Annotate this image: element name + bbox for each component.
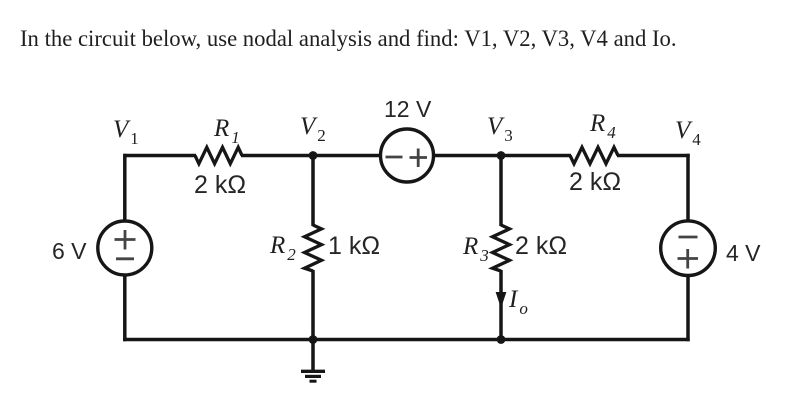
plus sign of 6V source [115, 230, 136, 250]
minus sign of 12V source [386, 156, 403, 159]
node label V3 [487, 114, 513, 139]
source value label 6 V [52, 240, 87, 263]
wire branch R2 down to bottom rail [311, 270, 315, 340]
wire bottom rail [123, 338, 690, 342]
wire top segment 12V source to R4 (through node V3) [434, 154, 572, 158]
ground symbol [301, 340, 325, 382]
wire left vertical upper (V1 down to 6V source) [123, 154, 127, 222]
resistor label R4 [590, 111, 616, 136]
resistor label R2 [270, 233, 296, 258]
source value label 4 V [726, 242, 761, 265]
resistor label R1 [214, 116, 240, 141]
plus sign of 12V source [410, 149, 428, 168]
resistor label R3 [463, 234, 489, 259]
wire top segment R4 to V4 corner [617, 154, 690, 158]
junction dot at node V3 [497, 151, 506, 160]
value label 2 kOhm of R4 [569, 170, 621, 195]
current label Io [509, 287, 528, 312]
junction dot at ground node [309, 335, 318, 344]
plus sign of 4V source [678, 249, 699, 269]
resistor R3 (2 kOhm, vertical) [493, 225, 510, 271]
wire right vertical upper (V4 down to 4V source) [686, 154, 690, 221]
current Io arrowhead [496, 293, 505, 307]
node label V2 [300, 114, 326, 139]
resistor R1 (2 kOhm, horizontal) [195, 147, 242, 163]
wire right vertical lower (4V source to bottom-right corner) [686, 276, 690, 342]
value label 1 kOhm of R2 [328, 234, 380, 259]
junction node V2 dot [309, 151, 318, 160]
source value label 12 V [384, 98, 431, 121]
minus sign of 6V source [116, 257, 134, 260]
wire left vertical lower (6V source to bottom-left corner) [123, 275, 127, 341]
wire top segment V1 to R1 [124, 154, 196, 158]
title text [20, 25, 677, 52]
resistor R4 (2 kOhm, horizontal) [570, 147, 618, 163]
junction dot bottom of R3 branch [497, 335, 506, 344]
wire branch R3 down to bottom rail with current Io [499, 270, 503, 340]
wire top segment R1 to 12V source (through node V2) [241, 154, 381, 158]
voltage source U2 6V circle [98, 221, 152, 275]
node label V4 [675, 118, 701, 143]
voltage source U3 4V circle [661, 221, 716, 276]
minus sign of 4V source [679, 236, 698, 239]
wire branch node V3 down to R3 [499, 156, 503, 227]
voltage source U1 12V circle [381, 129, 434, 182]
value label 2 kOhm of R1 [194, 173, 246, 198]
resistor R2 (1 kOhm, vertical) [305, 225, 322, 271]
node label V1 [113, 117, 139, 142]
wire branch node V2 down to R2 [311, 156, 315, 227]
value label 2 kOhm of R3 [515, 234, 567, 259]
